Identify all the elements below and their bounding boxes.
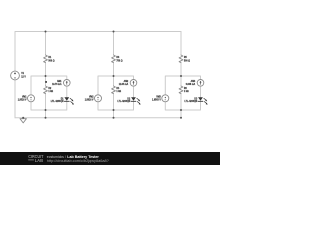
svg-text:1.8816 V: 1.8816 V (85, 98, 94, 102)
svg-text:500 Ω: 500 Ω (48, 58, 54, 62)
svg-text:500 Ω: 500 Ω (184, 58, 190, 62)
svg-text:LTL-4233QN: LTL-4233QN (51, 99, 64, 103)
svg-text:11.84 mA: 11.84 mA (119, 82, 129, 86)
svg-text:1.9563 V: 1.9563 V (152, 98, 161, 102)
svg-text:750 Ω: 750 Ω (116, 58, 122, 62)
svg-text:LTL-4233QN: LTL-4233QN (118, 99, 131, 103)
svg-text:1.9516 V: 1.9516 V (18, 98, 27, 102)
svg-text:1 kΩ: 1 kΩ (184, 89, 189, 93)
svg-text:1 kΩ: 1 kΩ (48, 89, 53, 93)
svg-text:12 V: 12 V (21, 74, 26, 78)
svg-text:0.906 mA: 0.906 mA (186, 82, 196, 86)
svg-text:1 kΩ: 1 kΩ (116, 89, 121, 93)
svg-text:LTL-4233QN: LTL-4233QN (185, 99, 198, 103)
svg-text:19.76 mA: 19.76 mA (52, 82, 62, 86)
svg-text:http://circuitlab.com/c/b2jqwy: http://circuitlab.com/c/b2jqwy8a6a8? (47, 159, 109, 163)
svg-text:LAB: LAB (35, 158, 43, 163)
